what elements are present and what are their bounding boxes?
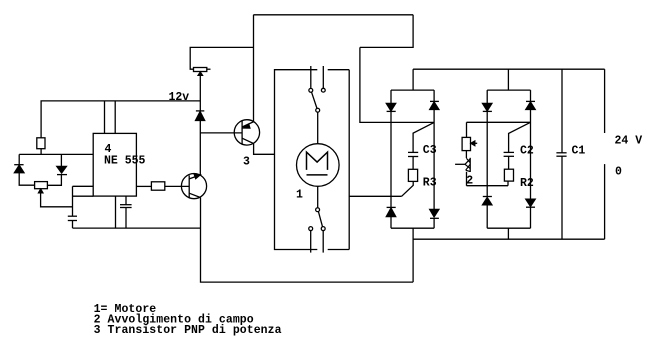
wire wiper to node x72.5 — [41, 193, 73, 207]
wire bridge1 top stub — [412, 69, 414, 90]
wire bridge2 right branch — [530, 110, 532, 200]
potentiometer P1 (horizontal box) — [35, 182, 48, 189]
wire bridge1 bottom stub and ground bus — [412, 228, 414, 282]
wire box right to bridge1 lower rail — [349, 195, 401, 197]
wire supply top rail y69 — [413, 68, 604, 70]
wiper arrow of P1 — [39, 189, 43, 193]
svg-text:3 Transistor PNP di potenza: 3 Transistor PNP di potenza — [94, 324, 282, 337]
switch S2 (bottom) — [309, 186, 325, 252]
battery 24V negative lead — [604, 164, 606, 239]
motor box enclosure — [275, 70, 350, 250]
bridge 1 top rail — [391, 89, 434, 91]
diode D5 (bridge1 bottom-left, up) — [386, 207, 395, 228]
resistor R2 — [504, 169, 513, 181]
svg-text:NE 555: NE 555 — [104, 155, 146, 168]
wire pot wiper column down through 12v rail — [199, 75, 201, 111]
diode D4 (bridge1 top-left, down) — [386, 90, 395, 111]
motor M1 — [297, 144, 340, 187]
wire winding column down — [466, 122, 468, 137]
wire 555 pin stub left upper — [73, 185, 94, 187]
resistor R5 (trimmer of winding) — [462, 137, 470, 150]
wire Q3 base line — [200, 132, 242, 134]
potentiometer P2 (top) — [194, 68, 207, 72]
wire R1 bottom to node line — [40, 149, 42, 155]
switch S1 (top) — [309, 66, 325, 144]
capacitor C4 (left of 555 bottom) — [68, 215, 77, 217]
snubber C3 branch diagonal — [413, 122, 434, 152]
transistor Q2 — [181, 174, 206, 199]
wire field winding top rail — [467, 121, 531, 123]
wire coil tap stub — [455, 163, 465, 165]
capacitor C5 (under 555) — [125, 196, 127, 205]
IC U1 NE 555 box — [93, 133, 136, 196]
battery 24V positive lead — [604, 69, 606, 133]
wire P2 left terminal up and right — [190, 47, 253, 69]
wire 12v rail — [41, 101, 200, 138]
capacitor C1 column — [561, 69, 563, 153]
resistor R4 (base resistor) — [151, 182, 164, 190]
svg-text:R2: R2 — [520, 177, 534, 190]
wire C2 to R2 — [508, 156, 510, 169]
wire vertical x72.5 — [72, 186, 74, 216]
bridge 2 bottom rail — [487, 227, 530, 229]
diode D7 (bridge1 bottom-right, down) — [430, 209, 439, 228]
resistor R3 — [408, 169, 417, 181]
svg-text:1: 1 — [296, 188, 303, 201]
capacitor C1 — [556, 152, 566, 154]
wire P2 right stub — [207, 68, 211, 70]
wire bridge1 right branch — [433, 110, 435, 210]
svg-text:0: 0 — [615, 165, 622, 178]
svg-text:C2: C2 — [520, 145, 534, 158]
diode D6 (bridge1 top-right, up) — [430, 90, 439, 109]
wire step down to y47 and left to x360 — [360, 15, 413, 48]
svg-text:C1: C1 — [572, 145, 586, 158]
diode D9 (bridge2 bottom-left, up) — [483, 197, 492, 229]
capacitor C2 — [504, 151, 514, 153]
bridge 2 top rail — [487, 89, 530, 91]
wire bridge2 bottom stub — [507, 228, 509, 239]
wire C3 to R3 — [412, 157, 414, 170]
svg-text:C3: C3 — [423, 144, 437, 157]
bridge 2 top stub — [507, 69, 509, 90]
bridge 1 bottom rail — [391, 227, 434, 229]
wire 555 bottom edge extension — [73, 195, 94, 197]
wire x360 riser down to bridge1 mid rail — [360, 47, 434, 122]
wire R3 bottom diagonal to rail — [402, 181, 414, 196]
wire Q3 emitter to motor box — [254, 144, 275, 155]
diode D11 (bridge2 bottom-right, down) — [526, 199, 535, 228]
diode D10 (bridge2 top-right, up) — [526, 90, 535, 109]
wiper arrow of P2 — [198, 72, 202, 75]
svg-text:12v: 12v — [169, 91, 190, 104]
arrow of trimmer — [471, 141, 475, 146]
wire node line to 555 left — [19, 153, 93, 155]
wire Q3 collector riser — [253, 15, 255, 122]
diode D8 (bridge2 top-left, down) — [483, 90, 492, 111]
wire top rail y15 — [253, 14, 413, 16]
resistor R1 (vertical, feeds 555 network) — [37, 138, 45, 149]
wire 555 output to base resistor — [136, 185, 151, 187]
diode D1 (left, up-pointing) — [14, 154, 34, 185]
wire coil bottom to R2 bottom — [467, 185, 509, 187]
svg-text:24 V: 24 V — [615, 134, 643, 147]
wire trimmer to coil — [465, 151, 467, 158]
svg-text:R3: R3 — [423, 176, 437, 189]
wire bridge1 left branch — [390, 111, 392, 207]
svg-text:3: 3 — [243, 155, 250, 168]
diode D2 (right, down-pointing) — [47, 154, 67, 185]
wire base resistor to Q2 — [165, 185, 189, 187]
wire 555 supply leads top — [104, 101, 106, 133]
wire Q2 collector up / Q3 base column — [199, 121, 201, 175]
wire ground bus to battery — [413, 238, 604, 240]
diode D3 (in collector column) — [196, 111, 205, 121]
wire bottom rail under 555 — [73, 227, 201, 229]
capacitor C3 — [408, 151, 418, 153]
inductor L1 (field winding 2) — [465, 158, 470, 186]
wire ground return to Q2 emitter — [201, 198, 414, 283]
wire bridge2 left branch — [486, 111, 488, 196]
wire R2 bottom — [507, 181, 509, 186]
snubber C2 branch diagonal — [509, 122, 531, 152]
wire 555 bottom lead 1 — [115, 196, 117, 228]
transistor Q3 (PNP "3") — [234, 120, 259, 145]
